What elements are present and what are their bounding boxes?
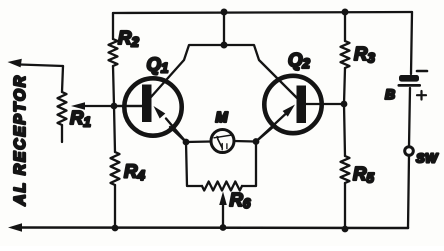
wire base node to R5: [344, 104, 345, 156]
node R3 top rail junction: [342, 9, 349, 16]
wire base node to R4: [114, 106, 115, 152]
node R6 bottom rail junction: [220, 224, 227, 231]
wire switch to bottom rail: [408, 156, 409, 229]
resistor R5: [341, 156, 350, 183]
wire R1 bottom stub: [61, 125, 63, 142]
wire R4 to bottom rail: [114, 185, 116, 228]
svg-text:R6: R6: [230, 189, 251, 211]
wire top rail: [113, 12, 412, 13]
svg-text:Q1: Q1: [147, 54, 169, 76]
wire battery to switch: [409, 88, 410, 147]
svg-text:AL RECEPTOR: AL RECEPTOR: [12, 74, 29, 206]
resistor R3: [341, 41, 350, 68]
resistor R4: [111, 152, 120, 185]
wire meter to bridge right: [234, 140, 256, 143]
svg-text:M: M: [216, 110, 229, 126]
wire bridge left leg: [186, 142, 202, 186]
terminal arrow bottom left (al receptor): [8, 223, 22, 232]
transistor Q1: [124, 78, 186, 142]
wire Q1 emitter to bridge: [170, 127, 186, 142]
wire to Q2 collector: [224, 45, 297, 98]
battery B: [398, 71, 428, 100]
node collector split junction: [221, 42, 228, 49]
svg-text:R4: R4: [124, 161, 145, 184]
meter M: [211, 130, 234, 153]
svg-text:B: B: [385, 86, 395, 102]
wire right vertical (battery branch top): [411, 12, 412, 74]
potentiometer R6: [202, 182, 242, 191]
resistor R2: [109, 39, 118, 66]
potentiometer R1: [58, 92, 67, 125]
wire bridge left to meter: [186, 140, 211, 143]
node R4 bottom rail junction: [112, 225, 119, 232]
node top rail center junction: [221, 9, 228, 16]
wire Q1 base line: [114, 105, 142, 107]
terminal arrow top left (al receptor): [8, 59, 64, 68]
wire bottom rail: [16, 226, 408, 229]
wire Q2 base line: [306, 103, 344, 105]
wire R2 to base node: [113, 66, 114, 106]
wiper arrow into R6: [219, 192, 227, 228]
node bridge right junction: [253, 138, 260, 145]
svg-text:R3: R3: [354, 43, 375, 66]
wire bridge right leg: [242, 142, 256, 187]
node Q2 base / R3 / R5 junction: [341, 101, 348, 108]
wire R5 to bottom rail: [344, 183, 346, 229]
node R5 bottom rail junction: [342, 226, 349, 233]
wire R3 to base node: [344, 68, 345, 104]
wire arrow corner down to R1: [62, 66, 63, 92]
svg-text:R2: R2: [118, 27, 139, 50]
wire Q2 emitter to bridge: [256, 127, 273, 142]
wire center drop: [223, 12, 225, 45]
wire R3 top: [344, 12, 346, 41]
svg-text:R5: R5: [353, 163, 374, 186]
wiper arrow into R1: [71, 102, 142, 110]
wire to Q1 collector: [151, 45, 224, 97]
transistor Q2: [256, 76, 322, 142]
svg-text:Q2: Q2: [288, 49, 310, 71]
node Q1 base / R2 / R4 junction: [111, 103, 118, 110]
node bridge left junction: [183, 139, 190, 146]
svg-text:SW: SW: [416, 151, 439, 166]
switch SW: [405, 147, 414, 156]
wire top rail corner to R2: [112, 13, 114, 39]
svg-text:R1: R1: [70, 107, 91, 130]
